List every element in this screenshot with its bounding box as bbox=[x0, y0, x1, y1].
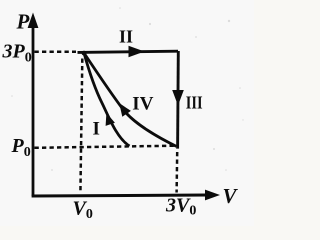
svg-text:III: III bbox=[186, 93, 203, 113]
dashed guide V0 vertical bbox=[80, 59, 82, 194]
dashed guide 3P0 level bbox=[35, 50, 77, 53]
process I curve bbox=[84, 53, 130, 146]
dashed guide P0 level bbox=[35, 146, 177, 148]
V axis bbox=[32, 190, 220, 201]
arrow on IV bbox=[119, 103, 131, 117]
arrow on III bbox=[172, 90, 184, 106]
scan speckles bbox=[11, 7, 244, 171]
node start point bbox=[82, 51, 87, 56]
process IV curve bbox=[84, 53, 176, 146]
process III line bbox=[176, 51, 180, 149]
svg-text:V: V bbox=[223, 184, 239, 208]
P axis bbox=[28, 13, 39, 197]
svg-text:II: II bbox=[119, 27, 133, 47]
svg-text:IV: IV bbox=[132, 94, 153, 115]
arrow on II bbox=[129, 46, 145, 57]
process II line bbox=[78, 51, 179, 52]
svg-text:I: I bbox=[93, 119, 100, 140]
svg-text:P: P bbox=[16, 10, 30, 34]
arrow on I bbox=[106, 113, 115, 126]
dashed guide 3V0 vertical bbox=[175, 152, 178, 193]
